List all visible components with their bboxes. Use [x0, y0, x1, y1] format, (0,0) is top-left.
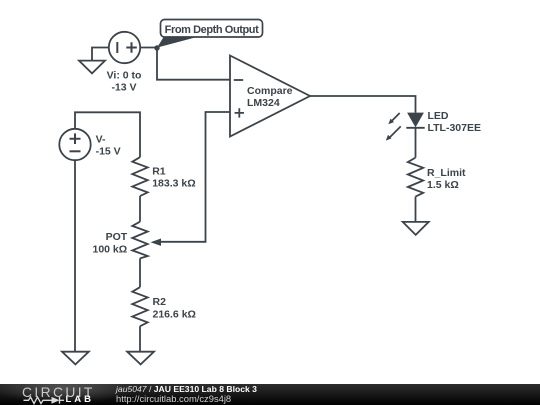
svg-text:V-: V-: [96, 134, 106, 146]
svg-text:216.6 kΩ: 216.6 kΩ: [153, 308, 196, 320]
svg-text:-13 V: -13 V: [111, 82, 136, 94]
svg-text:POT: POT: [106, 231, 128, 243]
svg-text:100 kΩ: 100 kΩ: [92, 243, 127, 255]
svg-text:From Depth Output: From Depth Output: [165, 24, 259, 36]
svg-text:Vi: 0 to: Vi: 0 to: [107, 70, 142, 82]
svg-text:Compare: Compare: [247, 85, 293, 97]
svg-text:-15 V: -15 V: [96, 146, 121, 158]
svg-text:LTL-307EE: LTL-307EE: [428, 122, 481, 134]
svg-text:R_Limit: R_Limit: [427, 167, 466, 179]
svg-text:LM324: LM324: [247, 97, 280, 109]
svg-text:LED: LED: [428, 110, 449, 122]
svg-text:R1: R1: [152, 166, 166, 178]
svg-text:183.3 kΩ: 183.3 kΩ: [152, 178, 195, 190]
svg-text:1.5 kΩ: 1.5 kΩ: [427, 179, 459, 191]
svg-text:R2: R2: [153, 296, 167, 308]
